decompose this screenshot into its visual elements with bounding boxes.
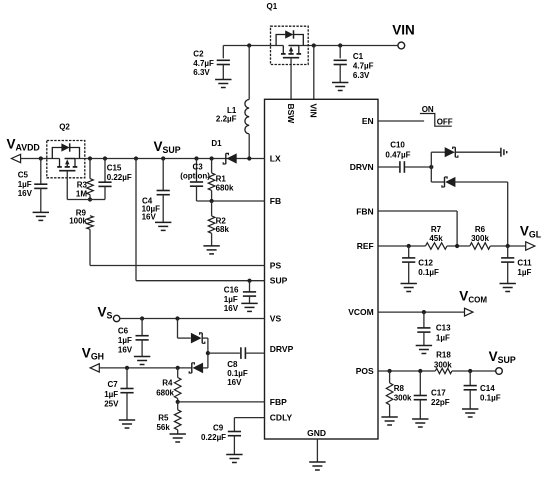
pin REF (357, 241, 374, 251)
capacitor C14 (464, 371, 477, 409)
svg-text:C9: C9 (213, 423, 224, 432)
pin FBP (270, 397, 287, 407)
pin VIN (309, 104, 319, 118)
wire VGH (99, 367, 192, 369)
label R1 value (216, 175, 234, 193)
node VS branch junction (175, 316, 179, 320)
wire top rail right (Q1 to VIN terminal) (289, 45, 398, 47)
node R1 top junction (210, 156, 214, 160)
wire R18 to VSUP terminal (452, 370, 496, 372)
svg-text:22pF: 22pF (431, 398, 450, 407)
label C10 value (385, 140, 410, 159)
node FBP junction (176, 400, 180, 404)
ground under R5 (170, 434, 186, 442)
pin SUP (270, 276, 288, 286)
switch ON-OFF (420, 114, 452, 127)
capacitor C4 (157, 159, 170, 223)
label V_COM (459, 288, 487, 304)
ground under C7 (119, 420, 135, 428)
label C13 value (436, 323, 451, 342)
label C5 value (18, 170, 33, 198)
svg-text:(option): (option) (180, 172, 210, 181)
svg-text:REF: REF (357, 241, 374, 251)
transistor Q1 (276, 30, 303, 57)
node C13 junction (422, 310, 426, 314)
label V_GH (82, 345, 104, 361)
wire to diode D2 (431, 151, 445, 153)
node R3 top junction (88, 156, 92, 160)
label C9 value (201, 423, 226, 442)
svg-text:C13: C13 (436, 323, 451, 332)
op-amp U1 (main IC body) (265, 99, 379, 439)
label Q2 (59, 123, 70, 132)
svg-text:OFF: OFF (437, 118, 453, 127)
svg-text:R1: R1 (216, 175, 227, 184)
svg-text:GND: GND (307, 428, 326, 438)
wire D3 to VGL (455, 182, 508, 246)
capacitor C17 (414, 371, 427, 419)
pin LX (270, 153, 281, 163)
wire L1 bottom lead (248, 134, 250, 159)
ground under C2 (215, 80, 231, 88)
node SUP rail junction (134, 156, 138, 160)
svg-text:PS: PS (270, 260, 282, 270)
ground under GND pin (309, 462, 325, 470)
label V_SUP right (489, 349, 516, 365)
wire mid rail right (Q2 to LX pin) (65, 158, 265, 160)
wire DRVP (node to C8) (208, 352, 240, 354)
svg-text:VIN: VIN (392, 23, 415, 38)
node C12 junction (407, 244, 411, 248)
svg-text:0.22µF: 0.22µF (107, 173, 132, 182)
wire POS (IC to R18) (378, 370, 435, 372)
label C8 value (227, 360, 248, 387)
node VIN pin junction (312, 43, 316, 47)
label VIN (392, 23, 415, 38)
svg-text:VCOM: VCOM (348, 307, 374, 317)
svg-text:C12: C12 (418, 258, 433, 267)
ground under C13 (416, 346, 432, 354)
pin GND (307, 428, 326, 438)
resistor R3 (87, 159, 94, 200)
wire SUP (rail down to SUP pin) (136, 159, 265, 281)
svg-text:C11: C11 (517, 258, 532, 267)
svg-text:6.3V: 6.3V (193, 68, 210, 77)
label V_GL (520, 223, 542, 239)
node FBN-REF junction (455, 244, 459, 248)
svg-text:C8: C8 (227, 360, 238, 369)
ground under C12 (401, 284, 417, 292)
node C7 junction (125, 366, 129, 370)
svg-text:R18: R18 (436, 351, 451, 360)
svg-text:1M: 1M (76, 189, 87, 198)
node C4 junction (161, 156, 165, 160)
svg-text:25V: 25V (104, 399, 119, 408)
resistor R18 (435, 368, 452, 373)
svg-text:300k: 300k (394, 394, 412, 403)
label ON (422, 105, 434, 114)
label R2 value (216, 216, 230, 233)
label R7 value (429, 225, 443, 243)
svg-text:VSUP: VSUP (489, 349, 516, 365)
label Q1 (267, 2, 278, 11)
svg-text:6.3V: 6.3V (353, 71, 370, 80)
Q1 package dashed box (271, 26, 309, 64)
svg-text:VGL: VGL (520, 223, 542, 239)
resistor R5 (174, 402, 181, 434)
pin FBN (356, 206, 373, 216)
svg-text:45k: 45k (429, 234, 443, 243)
label OFF (437, 118, 453, 127)
svg-text:C15: C15 (107, 164, 122, 173)
svg-text:16V: 16V (18, 189, 33, 198)
svg-text:1µF: 1µF (517, 268, 531, 277)
svg-text:0.1µF: 0.1µF (227, 369, 248, 378)
svg-text:1µF: 1µF (436, 333, 450, 342)
svg-text:100k: 100k (69, 216, 87, 225)
svg-text:16V: 16V (224, 304, 239, 313)
node L1 top junction (247, 43, 251, 47)
label C4 value (142, 196, 161, 221)
pin FB (270, 196, 281, 206)
net flag V_COM arrow (465, 308, 473, 316)
wire pump node to D3 (431, 181, 444, 183)
diode D2 (445, 147, 458, 157)
net flag V_AVDD arrow (11, 154, 20, 162)
svg-text:16V: 16V (118, 346, 133, 355)
ground under C14 (462, 409, 478, 417)
resistor R2 (208, 201, 215, 246)
svg-text:C1: C1 (353, 52, 364, 61)
ground under C5 (33, 212, 49, 220)
capacitor C8 (241, 347, 246, 359)
ground rail stub (sideways) (501, 148, 507, 157)
wire Q1 gate to BSW pin (290, 58, 292, 100)
diode D4 (191, 333, 205, 344)
node FB junction (210, 199, 214, 203)
svg-text:16V: 16V (142, 213, 157, 222)
svg-text:C5: C5 (18, 170, 29, 179)
resistor R4 (174, 368, 181, 402)
ground under C17 (412, 419, 428, 427)
svg-text:300k: 300k (434, 361, 452, 370)
label V_SUP (154, 139, 181, 155)
svg-text:R5: R5 (158, 413, 169, 422)
inductor L1 (245, 100, 249, 134)
svg-text:2.2µF: 2.2µF (216, 115, 237, 124)
label C17 value (431, 388, 450, 407)
wire CDLY (234, 418, 264, 432)
ground under C6 (134, 357, 150, 365)
svg-text:EN: EN (362, 116, 374, 126)
wire FBN (378, 211, 457, 246)
wire GND pin (316, 439, 318, 462)
node R4 junction (176, 366, 180, 370)
svg-text:68k: 68k (216, 225, 230, 234)
node LX junction (247, 156, 251, 160)
wire D2 to rail stub (455, 151, 500, 153)
svg-text:4.7µF: 4.7µF (193, 59, 214, 68)
node DRVN pump node (429, 165, 433, 169)
diode D3 (442, 177, 456, 187)
svg-text:R7: R7 (431, 225, 442, 234)
pin EN (362, 116, 374, 126)
svg-text:R6: R6 (475, 225, 486, 234)
svg-text:C6: C6 (118, 326, 129, 335)
svg-text:SUP: SUP (270, 276, 288, 286)
svg-text:0.47µF: 0.47µF (385, 150, 410, 159)
capacitor C13 (417, 312, 430, 345)
svg-text:Q1: Q1 (267, 2, 278, 11)
node VGL junction (506, 244, 510, 248)
diode D1 (223, 153, 237, 164)
capacitor C3 (190, 159, 203, 202)
capacitor C11 (501, 246, 514, 284)
pin VCOM (348, 307, 374, 317)
terminal VIN (398, 42, 405, 49)
svg-text:VIN: VIN (309, 104, 319, 118)
svg-text:FBN: FBN (356, 206, 373, 216)
wire L1 top lead (248, 46, 250, 100)
svg-text:1µF: 1µF (224, 295, 238, 304)
ground under C11 (500, 284, 516, 292)
label R5 value (156, 413, 170, 432)
svg-text:C16: C16 (224, 286, 239, 295)
svg-text:VCOM: VCOM (459, 288, 487, 304)
label R9 value (69, 208, 87, 225)
svg-text:680k: 680k (216, 184, 234, 193)
svg-text:VSUP: VSUP (154, 139, 181, 155)
svg-text:VS: VS (98, 304, 113, 320)
svg-text:D1: D1 (211, 139, 222, 148)
resistor R6 (470, 243, 491, 250)
pin DRVN (350, 162, 374, 172)
label C12 value (418, 258, 439, 276)
ground under R2 (203, 246, 219, 254)
wire EN (378, 120, 424, 122)
wire VCOM (378, 311, 465, 313)
node gate node junction (88, 197, 92, 201)
svg-text:16V: 16V (227, 378, 242, 387)
wire VS branch to D4 (178, 319, 191, 339)
pin DRVP (270, 344, 294, 354)
capacitor C12 (402, 246, 415, 284)
svg-text:LX: LX (270, 153, 281, 163)
wire FB (C3 to FB pin) (197, 200, 265, 202)
ground under C9 (226, 455, 242, 463)
capacitor C2 (217, 46, 230, 80)
net flag V_GH arrow (90, 364, 99, 372)
wire PS (R9 to PS pin) (90, 265, 265, 267)
svg-text:0.1µF: 0.1µF (480, 394, 501, 403)
node C16 junction (247, 279, 251, 283)
svg-text:1µF: 1µF (104, 390, 118, 399)
svg-text:0.1µF: 0.1µF (418, 268, 439, 277)
svg-text:FB: FB (270, 196, 281, 206)
resistor R7 (426, 243, 448, 250)
label R6 value (471, 225, 489, 243)
label C11 value (517, 258, 532, 276)
svg-text:Q2: Q2 (59, 123, 70, 132)
ground under C4 (155, 222, 171, 230)
svg-text:BSW: BSW (286, 104, 296, 125)
svg-text:R8: R8 (394, 384, 405, 393)
svg-text:C10: C10 (390, 140, 405, 149)
pin VS (270, 313, 282, 323)
ground under C1 (332, 83, 348, 91)
label C15 value (107, 164, 132, 183)
Q2 package dashed box (47, 141, 85, 178)
wire VIN pin (top rail to IC) (313, 46, 315, 100)
pin BSW (286, 104, 296, 125)
label V_S (98, 304, 113, 320)
terminal V_S (113, 315, 119, 321)
node R8 junction (388, 369, 392, 373)
node C14 junction (468, 369, 472, 373)
svg-text:0.22µF: 0.22µF (201, 433, 226, 442)
wire D5 to pump node (203, 367, 208, 369)
svg-text:C3: C3 (193, 163, 204, 172)
pin POS (356, 366, 374, 376)
svg-text:C7: C7 (108, 380, 119, 389)
ground under R8 (381, 417, 397, 425)
node C6 junction (140, 316, 144, 320)
svg-text:R4: R4 (162, 379, 173, 388)
svg-text:DRVN: DRVN (350, 162, 374, 172)
node C5 junction (39, 156, 43, 160)
svg-text:1µF: 1µF (18, 180, 32, 189)
wire D4 to pump node (202, 338, 208, 368)
capacitor C7 (120, 368, 133, 420)
wire VS (120, 318, 265, 320)
wire top rail left (C2 to Q1) (223, 45, 283, 47)
svg-text:POS: POS (356, 366, 374, 376)
label C1 value (353, 52, 374, 80)
capacitor C10 (400, 161, 405, 173)
wire C8 to DRVP pin (246, 352, 264, 354)
wire mid rail left (arrow to Q2) (21, 158, 60, 160)
wire REF (IC to R7) (378, 245, 426, 247)
capacitor C1 (334, 46, 347, 83)
svg-text:VS: VS (270, 313, 282, 323)
capacitor C5 (34, 159, 47, 213)
pin CDLY (270, 412, 293, 422)
node C3 junction (194, 156, 198, 160)
svg-text:C14: C14 (480, 384, 495, 393)
svg-text:C2: C2 (193, 50, 204, 59)
wire DRVN (IC to C10) (378, 166, 399, 168)
resistor R1 (208, 159, 215, 202)
node C1 junction (338, 43, 342, 47)
ground under C16 (241, 303, 257, 311)
label L1 value (216, 106, 237, 124)
capacitor C6 (136, 319, 149, 357)
pin PS (270, 260, 282, 270)
capacitor C9 (228, 432, 241, 455)
svg-text:300k: 300k (471, 234, 489, 243)
wire Q2 gate (67, 171, 90, 200)
wire pump node vertical (430, 152, 432, 182)
svg-text:1µF: 1µF (118, 336, 132, 345)
terminal V_SUP right (496, 368, 503, 375)
wire C10 to node (405, 166, 431, 168)
label R4 value (156, 379, 174, 398)
label V_AVDD (7, 137, 40, 153)
svg-text:VGH: VGH (82, 345, 104, 361)
svg-text:4.7µF: 4.7µF (353, 62, 374, 71)
resistor R8 (386, 371, 393, 417)
node C15 top junction (103, 156, 107, 160)
svg-text:CDLY: CDLY (270, 412, 293, 422)
label R3 value (76, 181, 88, 199)
label C6 value (118, 326, 133, 354)
wire R7 to R6 (447, 245, 470, 247)
svg-text:C17: C17 (431, 388, 446, 397)
label C14 value (480, 384, 501, 403)
capacitor C15 (90, 159, 112, 200)
wire FBP (178, 401, 265, 403)
svg-text:DRVP: DRVP (270, 344, 294, 354)
resistor R9 (87, 216, 94, 266)
svg-text:ON: ON (422, 105, 434, 114)
capacitor C16 (243, 281, 256, 304)
label C7 value (104, 380, 119, 408)
svg-text:FBP: FBP (270, 397, 287, 407)
label D1 (211, 139, 222, 148)
svg-text:680k: 680k (156, 388, 174, 397)
svg-text:L1: L1 (227, 106, 237, 115)
label C2 value (193, 50, 214, 78)
svg-text:VAVDD: VAVDD (7, 137, 40, 153)
node C17 junction (418, 369, 422, 373)
net flag V_GL arrow (526, 242, 535, 250)
diode D5 (189, 363, 203, 374)
label C16 value (224, 286, 239, 314)
label R18 value (434, 351, 452, 370)
label C3 value (180, 163, 210, 181)
svg-text:56k: 56k (156, 423, 170, 432)
label R8 value (394, 384, 412, 403)
wire R6 to VGL node (490, 245, 525, 247)
transistor Q2 (52, 143, 79, 170)
node DRVP pump node (206, 351, 210, 355)
